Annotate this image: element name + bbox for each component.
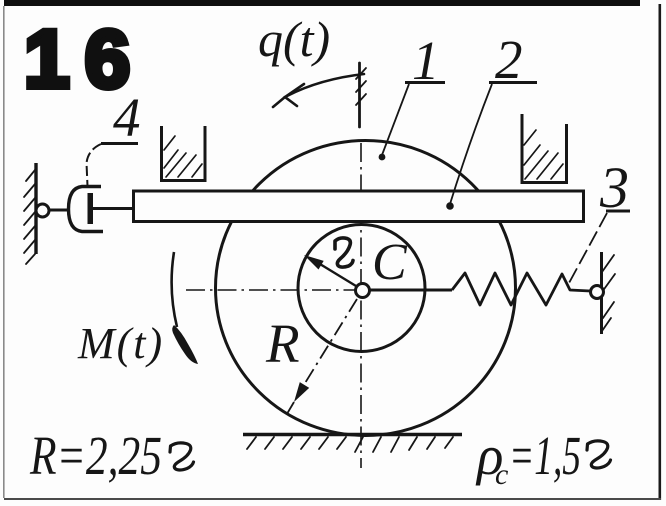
vertical centerline (dash-dot) through wheel center bbox=[360, 143, 362, 468]
right wall hatching bbox=[602, 255, 615, 331]
svg-text:=1,5: =1,5 bbox=[509, 425, 581, 486]
svg-text:q(t): q(t) bbox=[258, 11, 330, 67]
frame: left border bbox=[3, 6, 5, 498]
spring anchor pin bbox=[591, 286, 604, 299]
hub pin at C bbox=[356, 284, 370, 298]
label 4 with underline and leader bbox=[87, 87, 141, 186]
M(t) arrowhead (thick tapered wedge) bbox=[172, 325, 198, 364]
rod wall pin to damper cup bbox=[49, 209, 70, 212]
radial r (solid with filled arrowhead to inner circle) bbox=[304, 255, 356, 286]
right bracket guide (hatched, open top) bbox=[522, 114, 567, 183]
left bracket guide (hatched, open top) bbox=[162, 126, 206, 181]
label 1 with underline, leader and dot bbox=[379, 30, 445, 160]
label 2 with underline, leader and dot bbox=[446, 29, 537, 210]
frame: right border bbox=[659, 4, 662, 500]
frame: top scan bar bbox=[4, 0, 640, 6]
left wall hatching bbox=[24, 170, 35, 264]
beam 2 (white-filled, hides circle behind) bbox=[134, 191, 584, 222]
label r (script) bbox=[335, 238, 353, 267]
damper piston plate bbox=[88, 193, 94, 224]
svg-text:4: 4 bbox=[113, 87, 141, 148]
svg-text:2: 2 bbox=[495, 29, 523, 90]
ground hatching bbox=[247, 437, 453, 452]
ground line bbox=[243, 433, 462, 437]
right wall (spring anchor) bbox=[600, 252, 603, 334]
svg-text:C: C bbox=[372, 234, 408, 291]
horizontal centerline (dash-dot) bbox=[186, 289, 356, 291]
svg-text:c: c bbox=[495, 458, 508, 491]
M(t) moment arc bbox=[172, 252, 177, 327]
rod from hub to spring bbox=[366, 289, 452, 292]
svg-text:M(t): M(t) bbox=[77, 319, 164, 368]
formula rho_c = 1,5 r bbox=[475, 425, 611, 491]
inner circle (radius r) bbox=[298, 225, 425, 352]
svg-text:R=2,25: R=2,25 bbox=[29, 425, 162, 486]
arrow of q(t) (curved, pointing down-left) bbox=[273, 74, 364, 107]
vertical reference tick with hatches (above wheel) bbox=[356, 63, 366, 127]
formula R = 2,25 r bbox=[29, 425, 193, 486]
damper piston rod to beam bbox=[93, 207, 135, 210]
left wall (damper anchor) bbox=[34, 163, 37, 254]
frame: bottom border bbox=[4, 498, 661, 500]
wheel: big circle 1 bbox=[216, 141, 516, 436]
damper 4 cup body bbox=[69, 187, 104, 232]
label 3 with underline and dashed leader bbox=[569, 155, 630, 283]
spring 3 bbox=[452, 273, 590, 305]
damper anchor pin bbox=[36, 204, 49, 217]
radial R (dash-dot with filled arrowhead to rim) bbox=[288, 299, 358, 413]
svg-text:R: R bbox=[265, 313, 300, 374]
